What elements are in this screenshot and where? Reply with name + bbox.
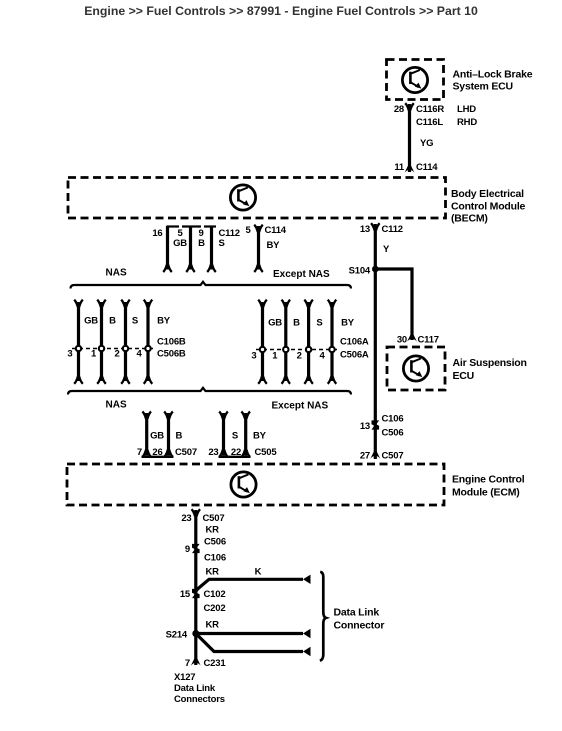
svg-text:C507: C507 bbox=[203, 513, 225, 524]
svg-text:S: S bbox=[219, 238, 225, 249]
svg-text:27: 27 bbox=[360, 451, 370, 462]
svg-text:S214: S214 bbox=[166, 630, 188, 641]
svg-text:3: 3 bbox=[67, 349, 72, 360]
svg-text:KR: KR bbox=[206, 567, 220, 578]
svg-text:RHD: RHD bbox=[457, 117, 477, 128]
svg-text:S: S bbox=[132, 316, 138, 327]
svg-text:Data Link: Data Link bbox=[334, 607, 380, 619]
svg-text:BY: BY bbox=[341, 318, 355, 329]
svg-text:ECU: ECU bbox=[453, 370, 475, 382]
svg-text:2: 2 bbox=[297, 351, 302, 362]
svg-text:KR: KR bbox=[206, 620, 220, 631]
svg-text:26: 26 bbox=[152, 447, 162, 458]
svg-text:C114: C114 bbox=[265, 225, 287, 236]
svg-text:BY: BY bbox=[157, 316, 171, 327]
svg-text:Body Electrical: Body Electrical bbox=[451, 188, 524, 200]
svg-text:(BECM): (BECM) bbox=[451, 213, 488, 225]
svg-text:2: 2 bbox=[114, 349, 119, 360]
svg-text:Air Suspension: Air Suspension bbox=[453, 357, 527, 369]
svg-text:C231: C231 bbox=[204, 658, 227, 669]
svg-text:C202: C202 bbox=[204, 603, 226, 614]
svg-text:LHD: LHD bbox=[457, 104, 476, 115]
svg-text:Connectors: Connectors bbox=[174, 694, 225, 705]
svg-text:C116R: C116R bbox=[416, 104, 444, 115]
svg-text:System ECU: System ECU bbox=[453, 81, 513, 93]
svg-text:C507: C507 bbox=[175, 447, 197, 458]
svg-text:B: B bbox=[293, 318, 300, 329]
svg-text:NAS: NAS bbox=[106, 268, 127, 279]
svg-text:4: 4 bbox=[136, 349, 142, 360]
svg-text:B: B bbox=[198, 238, 205, 249]
svg-text:C505: C505 bbox=[255, 447, 278, 458]
svg-text:15: 15 bbox=[180, 589, 191, 600]
svg-text:23: 23 bbox=[208, 447, 218, 458]
svg-text:4: 4 bbox=[319, 351, 325, 362]
svg-text:B: B bbox=[176, 431, 183, 442]
svg-text:C102: C102 bbox=[204, 589, 226, 600]
svg-text:13: 13 bbox=[360, 224, 370, 235]
svg-text:C114: C114 bbox=[416, 162, 438, 173]
svg-text:1: 1 bbox=[91, 349, 97, 360]
svg-text:C106: C106 bbox=[204, 553, 226, 564]
svg-text:C117: C117 bbox=[418, 335, 439, 346]
svg-text:23: 23 bbox=[181, 513, 191, 524]
svg-text:7: 7 bbox=[185, 658, 190, 669]
svg-text:GB: GB bbox=[84, 316, 98, 327]
svg-text:1: 1 bbox=[272, 351, 278, 362]
svg-text:C506: C506 bbox=[204, 537, 226, 548]
svg-text:Connector: Connector bbox=[334, 620, 385, 632]
svg-text:Module (ECM): Module (ECM) bbox=[452, 487, 520, 499]
svg-text:BY: BY bbox=[267, 240, 281, 251]
svg-text:Except NAS: Except NAS bbox=[272, 401, 329, 412]
svg-text:X127: X127 bbox=[174, 672, 195, 683]
svg-text:GB: GB bbox=[150, 431, 164, 442]
svg-text:11: 11 bbox=[394, 162, 405, 173]
svg-text:GB: GB bbox=[268, 318, 282, 329]
svg-text:S: S bbox=[316, 318, 322, 329]
svg-text:Data Link: Data Link bbox=[174, 683, 216, 694]
svg-text:30: 30 bbox=[397, 335, 407, 346]
svg-text:Control Module: Control Module bbox=[451, 201, 526, 213]
svg-text:BY: BY bbox=[253, 431, 267, 442]
svg-text:K: K bbox=[255, 567, 262, 578]
svg-text:Engine >> Fuel Controls >> 879: Engine >> Fuel Controls >> 87991 - Engin… bbox=[84, 4, 478, 18]
svg-text:Anti–Lock Brake: Anti–Lock Brake bbox=[453, 69, 533, 81]
svg-text:GB: GB bbox=[173, 238, 187, 249]
svg-text:S: S bbox=[232, 431, 238, 442]
svg-text:22: 22 bbox=[231, 447, 241, 458]
svg-text:B: B bbox=[109, 316, 116, 327]
svg-text:C506A: C506A bbox=[340, 350, 369, 361]
svg-text:7: 7 bbox=[137, 447, 142, 458]
svg-text:C506: C506 bbox=[382, 428, 404, 439]
svg-text:13: 13 bbox=[360, 421, 370, 432]
svg-text:5: 5 bbox=[245, 225, 251, 236]
svg-text:C106A: C106A bbox=[340, 337, 369, 348]
svg-text:C106B: C106B bbox=[157, 337, 186, 348]
svg-text:KR: KR bbox=[206, 525, 220, 536]
svg-text:Y: Y bbox=[383, 244, 390, 255]
svg-text:16: 16 bbox=[152, 228, 162, 239]
svg-text:C507: C507 bbox=[382, 451, 404, 462]
svg-text:9: 9 bbox=[185, 544, 190, 555]
svg-text:C116L: C116L bbox=[416, 117, 443, 128]
svg-text:Except NAS: Except NAS bbox=[273, 269, 330, 280]
svg-text:C506B: C506B bbox=[157, 349, 186, 360]
svg-text:NAS: NAS bbox=[106, 400, 127, 411]
svg-text:S104: S104 bbox=[349, 266, 371, 277]
svg-text:C106: C106 bbox=[382, 414, 404, 425]
svg-text:C112: C112 bbox=[382, 224, 403, 235]
svg-text:3: 3 bbox=[251, 351, 256, 362]
svg-text:YG: YG bbox=[420, 138, 433, 149]
svg-text:Engine Control: Engine Control bbox=[452, 474, 525, 486]
svg-text:28: 28 bbox=[394, 104, 404, 115]
